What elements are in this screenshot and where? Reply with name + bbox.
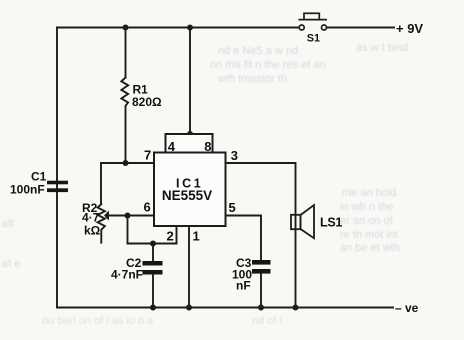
svg-text:3: 3	[231, 148, 238, 163]
svg-text:1: 1	[193, 229, 200, 244]
svg-text:4·7nF: 4·7nF	[111, 268, 143, 282]
svg-text:as w t bind: as w t bind	[356, 42, 409, 54]
svg-text:6: 6	[144, 200, 151, 215]
svg-text:re th mot int: re th mot int	[340, 229, 398, 241]
svg-text:4: 4	[168, 139, 176, 154]
svg-text:wth trnsstor th: wth trnsstor th	[217, 73, 287, 85]
svg-text:on ma flt n the res et an: on ma flt n the res et an	[210, 59, 326, 71]
svg-text:8: 8	[204, 139, 211, 154]
svg-text:nF: nF	[236, 279, 251, 293]
svg-text:– ve: – ve	[395, 301, 419, 315]
svg-text:alt: alt	[2, 218, 14, 230]
svg-text:in wh n the: in wh n the	[340, 201, 393, 213]
svg-text:ou berl on of l as lo o a: ou berl on of l as lo o a	[42, 315, 154, 327]
svg-text:2: 2	[167, 229, 174, 244]
svg-text:LS1: LS1	[320, 216, 342, 230]
svg-text:S1: S1	[307, 33, 320, 45]
svg-text:4·7: 4·7	[82, 211, 100, 225]
svg-text:820Ω: 820Ω	[132, 95, 162, 109]
svg-text:C1: C1	[31, 170, 47, 184]
svg-text:kΩ: kΩ	[84, 224, 101, 238]
svg-text:NE555V: NE555V	[162, 188, 212, 203]
svg-text:100nF: 100nF	[10, 183, 45, 197]
svg-text:+ 9V: + 9V	[396, 21, 423, 36]
svg-text:5: 5	[229, 200, 236, 215]
svg-text:an be et wth: an be et wth	[340, 242, 400, 254]
svg-text:7: 7	[144, 148, 151, 163]
svg-text:at e: at e	[2, 258, 20, 270]
svg-text:nd of t: nd of t	[252, 315, 283, 327]
svg-text:me an hold: me an hold	[342, 187, 396, 199]
svg-text:er an on of: er an on of	[340, 215, 394, 227]
svg-text:nd e Ne5 a w nd: nd e Ne5 a w nd	[218, 45, 298, 57]
